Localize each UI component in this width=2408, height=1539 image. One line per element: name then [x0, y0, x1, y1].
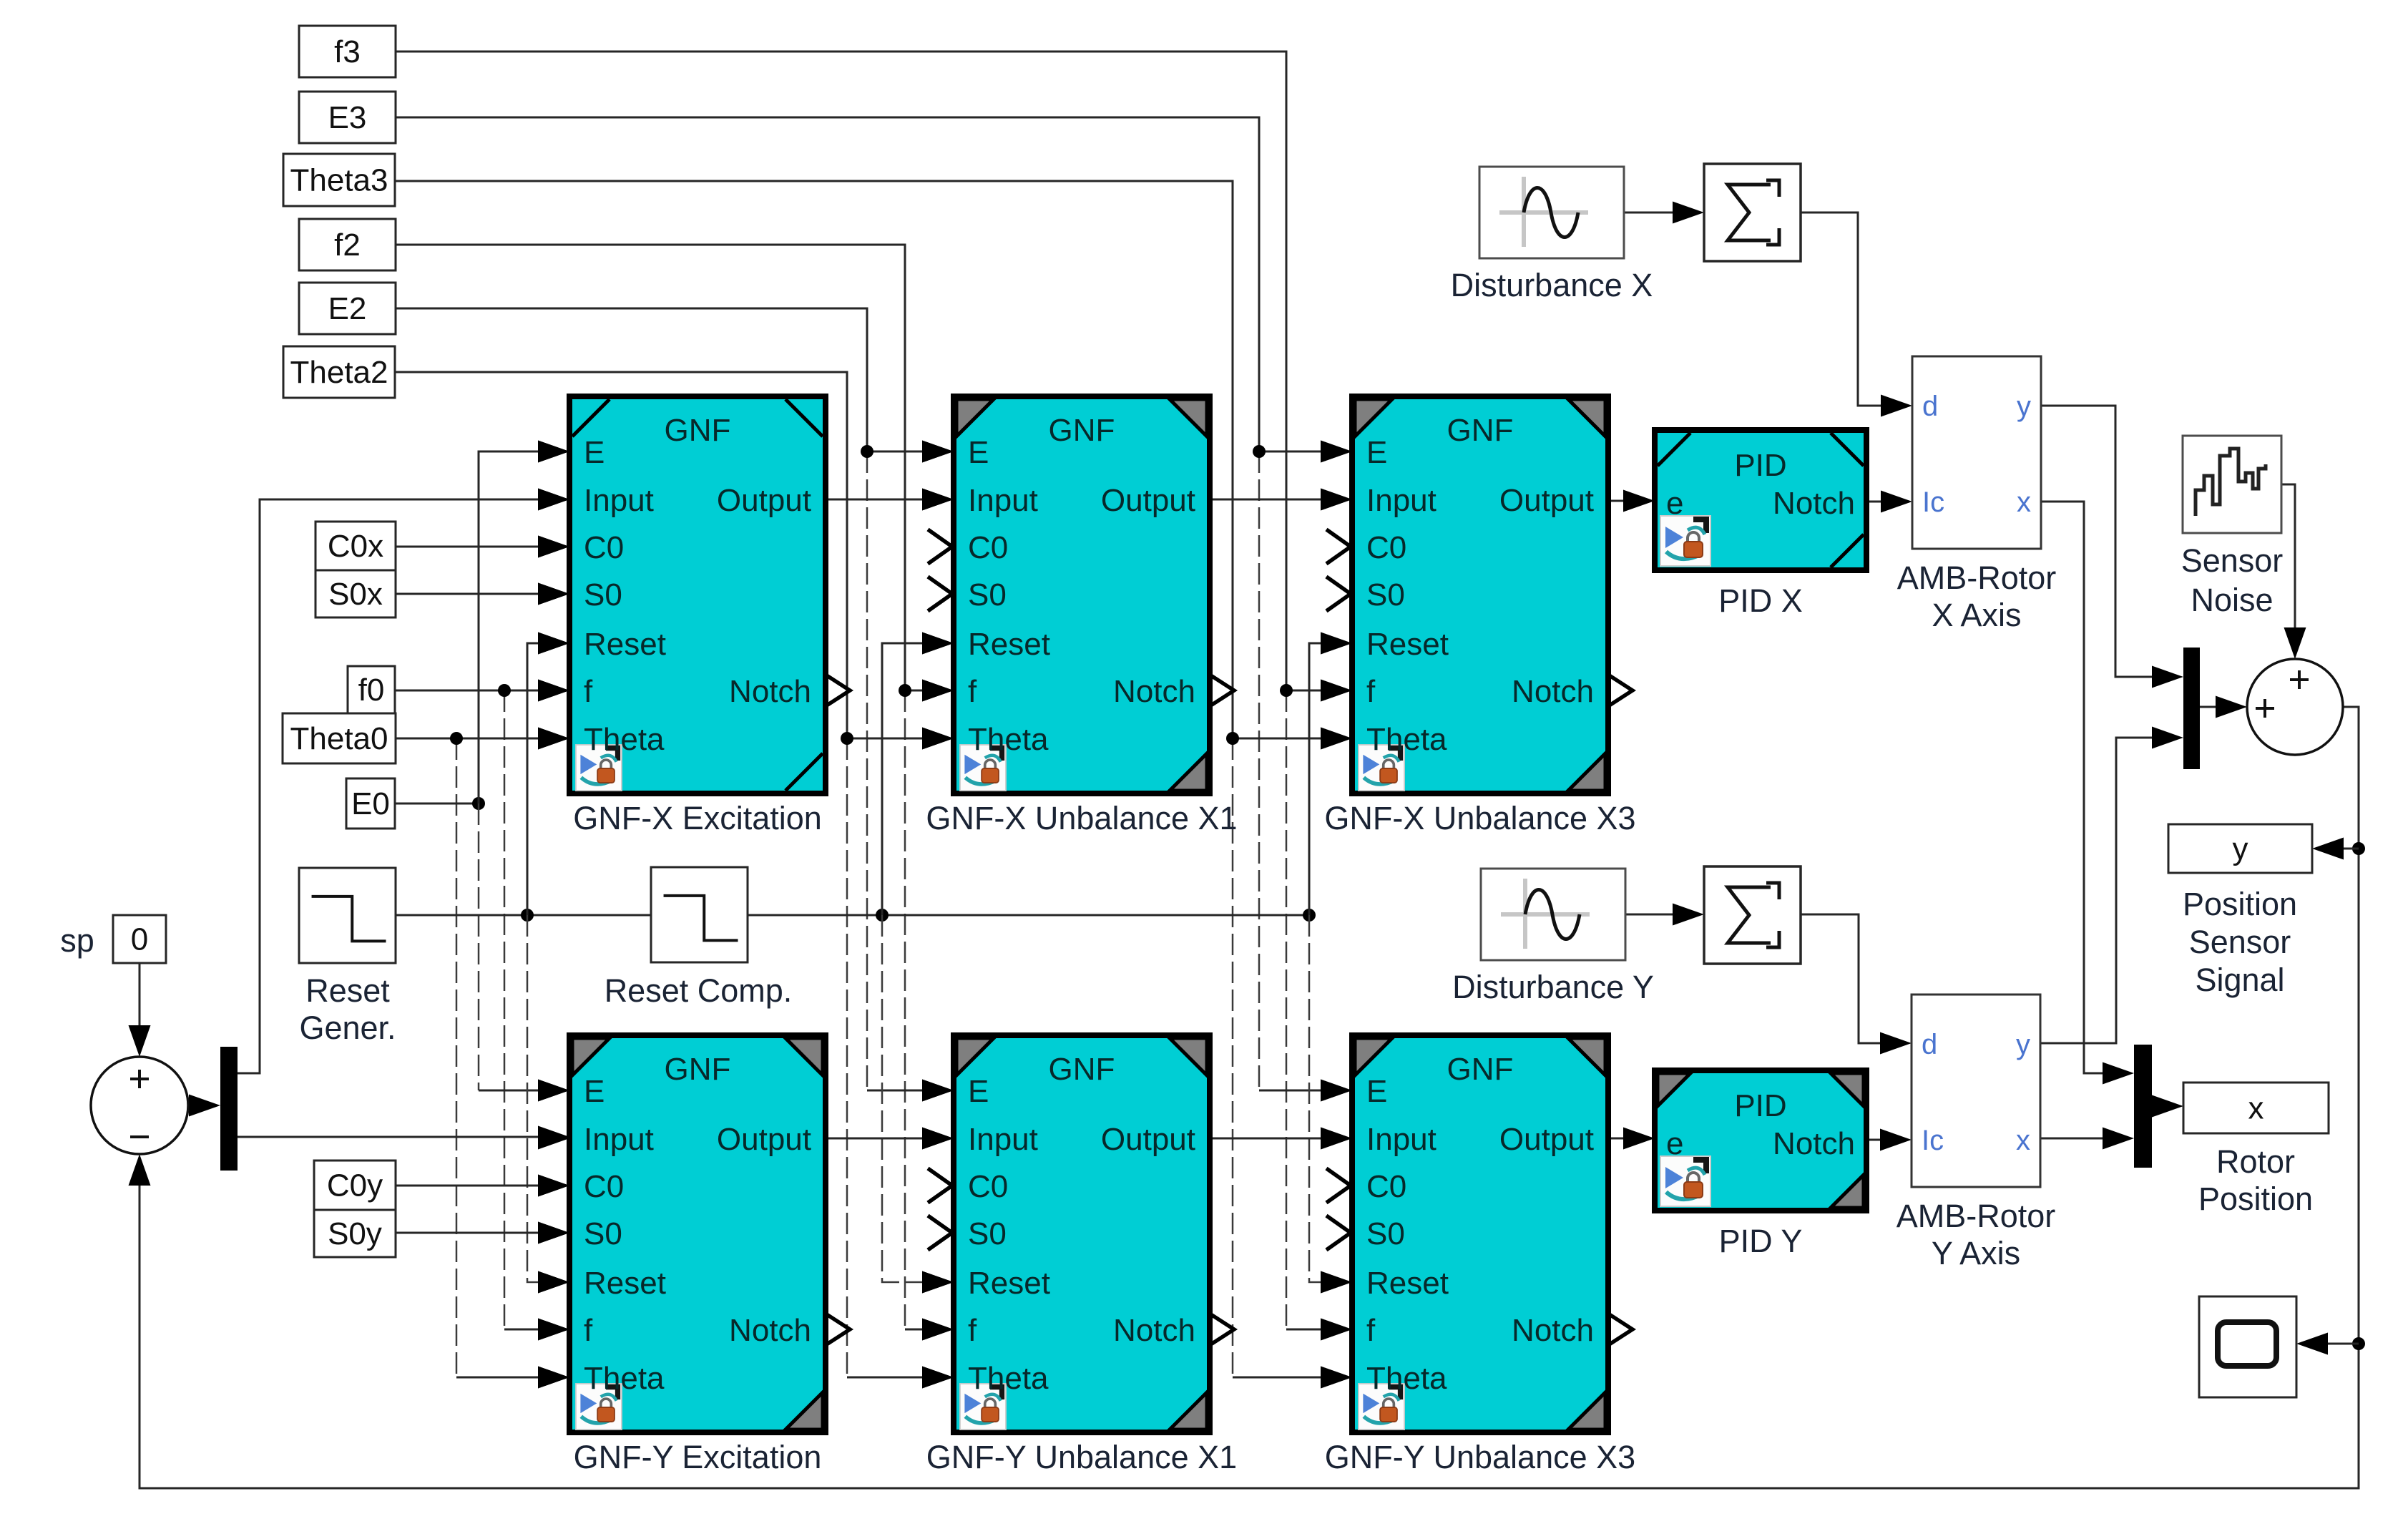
svg-text:PID Y: PID Y: [1719, 1223, 1803, 1259]
subsystem AMB-Rotor Y Axis: [1912, 995, 2040, 1187]
svg-text:f: f: [584, 674, 593, 709]
svg-text:S0x: S0x: [328, 577, 383, 612]
svg-text:GNF: GNF: [1447, 1052, 1514, 1087]
svg-text:Disturbance X: Disturbance X: [1451, 267, 1653, 303]
svg-text:f: f: [1366, 674, 1376, 709]
svg-text:Reset Comp.: Reset Comp.: [605, 972, 793, 1009]
svg-text:Ic: Ic: [1922, 1125, 1944, 1156]
source block C0y: [314, 1161, 396, 1210]
wire Theta2 to GNF-X/Y Unbalance X1 Theta inputs: [396, 372, 847, 738]
svg-text:Theta: Theta: [584, 1361, 665, 1396]
svg-text:Input: Input: [1366, 1122, 1437, 1157]
wire error demux to GNF-X Excitation Input: [238, 499, 567, 1073]
wire Disturbance Y to Sum Y: [1625, 914, 1701, 916]
svg-text:0: 0: [131, 922, 148, 957]
svg-text:Theta: Theta: [584, 722, 665, 757]
svg-text:Reset: Reset: [968, 1266, 1050, 1301]
svg-text:GNF-Y Unbalance X3: GNF-Y Unbalance X3: [1325, 1439, 1635, 1475]
svg-text:GNF-Y Unbalance X1: GNF-Y Unbalance X1: [926, 1439, 1237, 1475]
svg-text:Notch: Notch: [1512, 674, 1594, 709]
subsystem GNF-X Unbalance X3: [1321, 396, 1633, 793]
svg-text:E: E: [1366, 435, 1387, 470]
wire S0y to GNF-Y Excitation S0: [396, 1232, 567, 1234]
wire Sensor Noise to Sum right: [2281, 484, 2295, 656]
svg-text:Notch: Notch: [1773, 486, 1855, 521]
svg-text:C0: C0: [968, 1169, 1008, 1204]
svg-text:C0: C0: [1366, 530, 1406, 565]
source block E3: [299, 92, 396, 143]
wire rotor mux to Rotor Position tag: [2152, 1105, 2181, 1108]
svg-text:Input: Input: [584, 483, 654, 518]
svg-text:Input: Input: [1366, 483, 1437, 518]
wire f2 to GNF-X/Y Unbalance X1 f inputs: [396, 245, 905, 690]
svg-text:GNF-X Unbalance X3: GNF-X Unbalance X3: [1324, 800, 1635, 836]
source block S0x: [315, 570, 396, 617]
svg-text:Sensor: Sensor: [2189, 924, 2291, 960]
wire position mux to Sum right: [2200, 706, 2244, 708]
source block y: [2168, 824, 2312, 873]
svg-text:X Axis: X Axis: [1932, 597, 2021, 633]
svg-text:Noise: Noise: [2191, 582, 2273, 618]
sum block Sum X (sigma): [1704, 164, 1801, 261]
svg-text:Sensor: Sensor: [2181, 542, 2284, 579]
svg-text:GNF-X Unbalance X1: GNF-X Unbalance X1: [926, 800, 1237, 836]
source block f2: [299, 219, 396, 270]
source block S0y: [314, 1210, 396, 1257]
svg-text:x: x: [2248, 1091, 2264, 1126]
svg-text:y: y: [2017, 391, 2031, 422]
svg-text:f0: f0: [358, 673, 385, 708]
svg-text:GNF: GNF: [665, 1052, 731, 1087]
wire Theta0 to GNF-X/Y Excitation Theta inputs: [396, 738, 567, 740]
wire Reset Gener. to GNF-X/Y Excitation Reset inputs: [396, 914, 651, 917]
svg-text:Notch: Notch: [1113, 674, 1195, 709]
subsystem GNF-X Unbalance X1: [922, 396, 1234, 793]
svg-text:E3: E3: [328, 100, 367, 135]
svg-text:GNF-X Excitation: GNF-X Excitation: [573, 800, 822, 836]
svg-text:S0: S0: [1366, 577, 1405, 612]
svg-text:PID: PID: [1734, 1088, 1786, 1123]
svg-text:Position: Position: [2198, 1181, 2313, 1217]
svg-text:f: f: [584, 1313, 593, 1348]
wire Sum Y to AMB-Rotor Y d: [1801, 914, 1909, 1043]
svg-text:x: x: [2017, 487, 2031, 518]
wire sp constant to error sum: [139, 963, 141, 1054]
svg-text:y: y: [2233, 831, 2248, 866]
svg-text:Theta2: Theta2: [290, 355, 388, 390]
svg-text:E: E: [968, 1074, 989, 1109]
sine source Disturbance X: [1479, 167, 1624, 258]
subsystem GNF-Y Unbalance X1: [922, 1035, 1234, 1432]
svg-text:Reset: Reset: [1366, 627, 1449, 662]
source block Theta0: [283, 713, 396, 763]
svg-text:f: f: [1366, 1313, 1376, 1348]
wire GNF-X Unbalance X1 Output to GNF-X Unbalance X3 Input: [1210, 499, 1349, 501]
source block C0x: [315, 522, 396, 570]
svg-text:GNF: GNF: [1447, 413, 1514, 448]
step source Reset Gener.: [299, 868, 396, 963]
svg-text:GNF-Y Excitation: GNF-Y Excitation: [574, 1439, 822, 1475]
noise source Sensor Noise: [2183, 436, 2281, 533]
svg-text:PID X: PID X: [1718, 582, 1803, 619]
subsystem GNF-X Excitation: [538, 396, 850, 793]
svg-text:Input: Input: [968, 1122, 1038, 1157]
wire GNF-X Unbalance X3 Output to PID X: [1608, 500, 1652, 502]
svg-text:C0y: C0y: [327, 1168, 383, 1203]
svg-text:E: E: [584, 1074, 605, 1109]
wire E2 to GNF-X/Y Unbalance X1 E inputs: [396, 308, 867, 451]
svg-text:AMB-Rotor: AMB-Rotor: [1896, 1198, 2056, 1234]
svg-text:e: e: [1666, 486, 1683, 521]
svg-text:Notch: Notch: [729, 674, 811, 709]
svg-text:Input: Input: [584, 1122, 654, 1157]
svg-text:E: E: [584, 435, 605, 470]
svg-text:C0: C0: [968, 530, 1008, 565]
svg-text:C0x: C0x: [328, 529, 383, 564]
svg-text:Reset: Reset: [968, 627, 1050, 662]
scope block: [2199, 1296, 2296, 1397]
svg-text:E2: E2: [328, 291, 367, 326]
svg-text:Output: Output: [717, 483, 811, 518]
svg-text:GNF: GNF: [1049, 413, 1115, 448]
wire AMB-Rotor X y output to position mux: [2040, 406, 2181, 677]
wire C0x to GNF-X Excitation C0: [396, 546, 567, 548]
wire to Scope: [2299, 1343, 2359, 1345]
svg-text:C0: C0: [584, 530, 624, 565]
source block Theta2: [283, 346, 395, 398]
svg-text:Notch: Notch: [729, 1313, 811, 1348]
error demux: [220, 1047, 238, 1171]
svg-text:f3: f3: [334, 34, 361, 69]
sum block Sum Y (sigma): [1704, 866, 1801, 964]
source block x: [2183, 1083, 2329, 1133]
wire error demux to GNF-Y Excitation Input: [238, 1136, 567, 1138]
svg-text:S0: S0: [1366, 1216, 1405, 1251]
wire to Position Sensor Signal tag: [2315, 848, 2359, 850]
wire f3 to GNF-X/Y Unbalance X3 f inputs: [396, 52, 1286, 690]
svg-text:d: d: [1922, 391, 1938, 422]
wire PID X Notch to AMB-Rotor X Ic: [1866, 501, 1909, 503]
wire GNF-Y Excitation Output to GNF-Y Unbalance X1 Input: [826, 1138, 951, 1140]
wire AMB-Rotor Y x output to rotor mux: [2040, 1138, 2131, 1140]
source block E2: [299, 283, 396, 334]
svg-text:Output: Output: [1499, 483, 1594, 518]
svg-text:E0: E0: [351, 786, 390, 821]
svg-text:S0: S0: [584, 1216, 622, 1251]
wire Theta3 to GNF-X/Y Unbalance X3 Theta inputs: [396, 181, 1233, 738]
svg-text:AMB-Rotor: AMB-Rotor: [1897, 560, 2057, 596]
svg-text:Theta0: Theta0: [290, 721, 388, 756]
svg-text:S0y: S0y: [328, 1216, 382, 1251]
sine source Disturbance Y: [1481, 869, 1625, 960]
wire E3 to GNF-X/Y Unbalance X3 E inputs: [396, 117, 1259, 451]
svg-text:Notch: Notch: [1512, 1313, 1594, 1348]
source block 0: [113, 915, 166, 963]
rotor mux: [2134, 1045, 2152, 1168]
wire GNF-Y Unbalance X3 Output to PID Y: [1608, 1138, 1652, 1140]
wire C0y to GNF-Y Excitation C0: [396, 1185, 567, 1187]
svg-text:S0: S0: [968, 577, 1007, 612]
svg-text:Disturbance Y: Disturbance Y: [1452, 969, 1654, 1005]
svg-text:Theta: Theta: [968, 1361, 1049, 1396]
svg-text:Output: Output: [1101, 1122, 1195, 1157]
subsystem AMB-Rotor X Axis: [1912, 356, 2041, 549]
svg-text:Reset: Reset: [305, 972, 390, 1009]
svg-text:PID: PID: [1734, 448, 1786, 483]
svg-text:Reset: Reset: [584, 627, 666, 662]
svg-text:Input: Input: [968, 483, 1038, 518]
source block f0: [348, 666, 395, 713]
wire Sum X to AMB-Rotor X d: [1801, 212, 1909, 406]
subsystem PID Y: [1655, 1070, 1866, 1211]
wire PID Y Notch to AMB-Rotor Y Ic: [1865, 1139, 1909, 1141]
svg-text:S0: S0: [584, 577, 622, 612]
wire Reset Comp. to Unbalance blocks Reset inputs: [746, 914, 1309, 917]
wire AMB-Rotor Y y output to position mux: [2040, 738, 2181, 1043]
wire Disturbance X to Sum X: [1624, 212, 1701, 214]
svg-text:Notch: Notch: [1773, 1126, 1855, 1161]
wire Sum right output / feedback loop: [140, 707, 2359, 1488]
output sum junction (right): [2247, 659, 2343, 755]
svg-text:Output: Output: [1499, 1122, 1594, 1157]
svg-text:Position: Position: [2183, 886, 2297, 922]
wire E0 to GNF-X/Y Excitation E inputs: [395, 803, 479, 805]
source block f3: [299, 26, 396, 77]
svg-text:Gener.: Gener.: [299, 1010, 396, 1046]
subsystem GNF-Y Unbalance X3: [1321, 1035, 1633, 1432]
svg-text:Theta3: Theta3: [290, 163, 388, 198]
svg-text:Y Axis: Y Axis: [1932, 1235, 2020, 1271]
svg-text:x: x: [2016, 1125, 2030, 1156]
svg-text:Output: Output: [717, 1122, 811, 1157]
wire f0 to GNF-X/Y Excitation f inputs: [395, 690, 567, 692]
subsystem GNF-Y Excitation: [538, 1035, 850, 1432]
svg-text:GNF: GNF: [1049, 1052, 1115, 1087]
svg-text:d: d: [1922, 1029, 1937, 1060]
svg-text:Reset: Reset: [1366, 1266, 1449, 1301]
position mux: [2183, 648, 2200, 769]
source block E0: [346, 778, 395, 829]
svg-text:Output: Output: [1101, 483, 1195, 518]
svg-text:Theta: Theta: [968, 722, 1049, 757]
step source Reset Comp.: [651, 867, 748, 962]
svg-text:S0: S0: [968, 1216, 1007, 1251]
wire error sum to demux: [188, 1105, 217, 1107]
svg-text:E: E: [1366, 1074, 1387, 1109]
svg-text:C0: C0: [1366, 1169, 1406, 1204]
error sum junction (left): [91, 1057, 188, 1154]
svg-text:f2: f2: [334, 228, 361, 263]
svg-text:Theta: Theta: [1366, 1361, 1447, 1396]
svg-text:Notch: Notch: [1113, 1313, 1195, 1348]
wire GNF-X Excitation Output to GNF-X Unbalance X1 Input: [826, 499, 951, 501]
subsystem PID X: [1655, 430, 1866, 570]
wire AMB-Rotor X x output to rotor mux: [2040, 502, 2131, 1073]
svg-text:y: y: [2016, 1029, 2030, 1060]
svg-text:e: e: [1666, 1126, 1683, 1161]
svg-text:f: f: [968, 1313, 977, 1348]
svg-text:sp: sp: [60, 922, 94, 959]
wire S0x to GNF-X Excitation S0: [396, 593, 567, 595]
svg-text:Signal: Signal: [2195, 962, 2284, 998]
svg-text:Ic: Ic: [1922, 487, 1944, 518]
wire GNF-Y Unbalance X1 Output to GNF-Y Unbalance X3 Input: [1210, 1138, 1349, 1140]
svg-text:Theta: Theta: [1366, 722, 1447, 757]
svg-text:GNF: GNF: [665, 413, 731, 448]
svg-text:Rotor: Rotor: [2216, 1143, 2295, 1180]
svg-text:Reset: Reset: [584, 1266, 666, 1301]
svg-text:E: E: [968, 435, 989, 470]
svg-text:C0: C0: [584, 1169, 624, 1204]
svg-text:f: f: [968, 674, 977, 709]
source block Theta3: [283, 154, 395, 206]
